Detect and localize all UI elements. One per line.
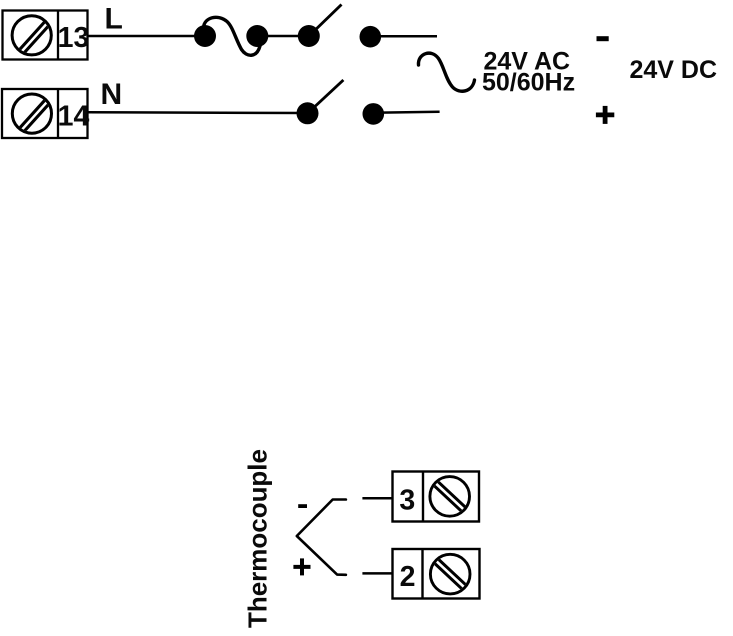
terminal 14 screw slot [15, 99, 50, 137]
terminal block 14 (screw terminal) [2, 89, 89, 138]
terminal 13 screw slot [15, 21, 50, 59]
thermocouple junction bracket [297, 500, 346, 575]
wire from dot 4 to AC source [370, 35, 437, 38]
junction dot 6 / switch contact (N row) [363, 103, 385, 125]
DC plus terminal mark [596, 106, 614, 124]
terminal 14 screw head [12, 94, 51, 133]
terminal block 2 (screw terminal) [393, 549, 480, 599]
svg-text:50/60Hz: 50/60Hz [482, 69, 575, 97]
wire from dot 6 to AC source [373, 112, 440, 113]
svg-text:L: L [105, 2, 123, 35]
terminal 13 screw head [12, 16, 51, 55]
thermocouple plus mark [293, 558, 310, 575]
terminal 2 screw slot [434, 558, 467, 589]
svg-text:N: N [101, 78, 123, 111]
svg-text:Thermocouple: Thermocouple [243, 449, 273, 628]
wire from dot 2 to dot 3 [257, 35, 309, 38]
AC sine wave symbol [418, 53, 474, 91]
svg-text:3: 3 [399, 484, 415, 516]
wire thermocouple minus to terminal 3 [362, 497, 392, 500]
junction dot 1 (L row) [194, 25, 216, 47]
terminal 2 outer box [393, 549, 480, 599]
terminal block 3 (screw terminal) [393, 472, 480, 522]
svg-text:24V DC: 24V DC [630, 56, 718, 84]
terminal 3 screw slot [433, 481, 466, 512]
flexible loop wire between dot 1 and dot 2 [204, 17, 261, 55]
switch arm N [309, 80, 343, 112]
terminal 14 divider [57, 89, 59, 138]
thermocouple minus mark [298, 504, 307, 508]
svg-text:14: 14 [58, 101, 90, 133]
terminal 3 outer box [393, 472, 480, 522]
wire L from terminal 13 to dot 1 [88, 35, 206, 38]
wire N from terminal 14 to switch dot [88, 111, 308, 114]
terminal 14 outer box [2, 89, 88, 138]
terminal 3 screw head [430, 477, 470, 517]
terminal block 13 (screw terminal) [3, 11, 90, 60]
terminal 13 divider [57, 11, 59, 60]
junction dot 5 / switch contact (N row) [297, 102, 319, 124]
svg-text:2: 2 [400, 561, 416, 593]
terminal 2 divider [421, 549, 423, 599]
junction dot 3 / switch contact (L row) [298, 25, 320, 47]
terminal 3 divider [422, 472, 424, 522]
wire thermocouple plus to terminal 2 [362, 572, 392, 575]
DC minus terminal mark [597, 36, 609, 41]
svg-text:13: 13 [58, 22, 90, 54]
junction dot 2 (L row) [246, 25, 268, 47]
switch arm L [310, 5, 342, 36]
terminal 2 screw head [430, 554, 470, 594]
junction dot 4 / switch contact (L row) [360, 26, 382, 48]
terminal 13 outer box [3, 11, 88, 60]
